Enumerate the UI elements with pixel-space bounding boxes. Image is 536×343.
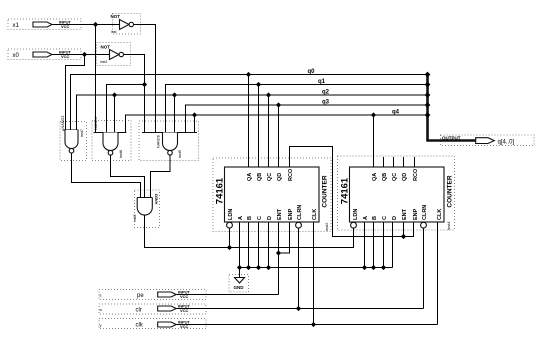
svg-text:ENP: ENP bbox=[288, 208, 294, 220]
svg-text:inst9: inst9 bbox=[178, 150, 182, 158]
svg-text:A: A bbox=[238, 216, 244, 220]
svg-text:CLK: CLK bbox=[437, 209, 443, 220]
svg-text:QC: QC bbox=[267, 173, 273, 181]
svg-text:y: y bbox=[100, 323, 102, 328]
svg-text:COUNTER: COUNTER bbox=[447, 175, 454, 207]
svg-text:C: C bbox=[382, 216, 388, 220]
svg-text:q3: q3 bbox=[322, 100, 330, 106]
svg-text:GND: GND bbox=[234, 285, 245, 290]
svg-text:C: C bbox=[257, 216, 263, 220]
svg-text:q1: q1 bbox=[318, 79, 326, 85]
svg-text:NAND4: NAND4 bbox=[94, 117, 98, 130]
svg-text:inst1: inst1 bbox=[100, 60, 107, 64]
svg-text:AND3: AND3 bbox=[154, 193, 159, 205]
svg-text:inst5: inst5 bbox=[133, 215, 137, 222]
svg-text:A: A bbox=[363, 216, 369, 220]
svg-text:q2: q2 bbox=[322, 90, 330, 96]
svg-text:QD: QD bbox=[277, 173, 283, 181]
svg-text:LDN: LDN bbox=[353, 209, 359, 220]
svg-text:NOT: NOT bbox=[101, 45, 111, 50]
svg-text:VCC: VCC bbox=[61, 24, 70, 29]
svg-text:inst2: inst2 bbox=[324, 222, 329, 231]
svg-text:CLRN: CLRN bbox=[422, 205, 428, 220]
svg-text:VCC: VCC bbox=[180, 294, 189, 299]
svg-text:inst4: inst4 bbox=[446, 221, 451, 230]
svg-text:QA: QA bbox=[372, 173, 378, 181]
svg-text:QB: QB bbox=[257, 173, 263, 181]
svg-text:RCO: RCO bbox=[288, 168, 294, 181]
svg-text:74161: 74161 bbox=[340, 177, 351, 204]
svg-text:74161: 74161 bbox=[215, 177, 226, 204]
svg-text:NAND3: NAND3 bbox=[61, 116, 65, 129]
svg-text:x1: x1 bbox=[13, 23, 20, 29]
svg-text:q4: q4 bbox=[392, 110, 400, 116]
svg-text:D: D bbox=[392, 216, 398, 220]
svg-text:clk: clk bbox=[136, 323, 144, 329]
svg-text:LDN: LDN bbox=[228, 209, 234, 220]
svg-text:QD: QD bbox=[402, 173, 408, 181]
svg-text:ENP: ENP bbox=[413, 208, 419, 220]
svg-text:QB: QB bbox=[382, 173, 388, 181]
svg-text:B: B bbox=[372, 216, 378, 220]
svg-text:inst7: inst7 bbox=[80, 129, 84, 137]
svg-text:RCO: RCO bbox=[413, 168, 419, 181]
svg-text:QA: QA bbox=[247, 173, 253, 181]
svg-text:inst8: inst8 bbox=[119, 150, 123, 158]
svg-text:NAND6: NAND6 bbox=[157, 135, 161, 148]
svg-text:CLK: CLK bbox=[312, 209, 318, 220]
svg-text:q[4..0]: q[4..0] bbox=[498, 140, 515, 146]
svg-text:OUTPUT: OUTPUT bbox=[442, 135, 461, 140]
svg-text:pe: pe bbox=[137, 293, 144, 299]
svg-text:clr: clr bbox=[136, 308, 142, 314]
svg-text:VCC: VCC bbox=[180, 308, 189, 313]
svg-text:VCC: VCC bbox=[180, 324, 189, 329]
svg-text:ENT: ENT bbox=[402, 208, 408, 220]
svg-text:B: B bbox=[247, 216, 253, 220]
svg-text:COUNTER: COUNTER bbox=[322, 175, 329, 207]
svg-text:q0: q0 bbox=[308, 69, 316, 75]
svg-text:NOT: NOT bbox=[111, 14, 121, 19]
svg-text:CLRN: CLRN bbox=[297, 205, 303, 220]
svg-text:ENT: ENT bbox=[277, 208, 283, 220]
svg-text:QC: QC bbox=[392, 173, 398, 181]
svg-text:inst: inst bbox=[111, 30, 116, 34]
svg-text:D: D bbox=[267, 216, 273, 220]
svg-text:s: s bbox=[100, 293, 102, 298]
svg-text:VCC: VCC bbox=[61, 54, 70, 59]
svg-text:x0: x0 bbox=[13, 53, 20, 59]
